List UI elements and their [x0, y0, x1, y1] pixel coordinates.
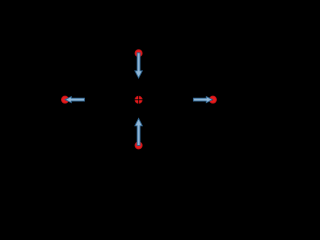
vertical bar outline	[130, 56, 148, 146]
axis arrow right edge (in, black invisible)	[238, 97, 249, 102]
cell line h4	[130, 126, 148, 128]
crosshair vertical	[138, 53, 140, 146]
axis arrow left edge (in, black invisible)	[0, 97, 12, 102]
node right	[209, 96, 216, 103]
force arrow bottom (up)	[135, 118, 142, 145]
node center	[135, 96, 142, 103]
cell line v3	[147, 92, 149, 110]
cell line v2	[129, 92, 131, 110]
cell line h1	[130, 73, 148, 75]
crosshair horizontal	[65, 99, 213, 101]
force arrow top (down)	[135, 53, 142, 78]
cruciform cell grid (black lines, invisible on black bg)	[94, 56, 184, 146]
node top	[135, 50, 142, 57]
horizontal bar outline	[94, 92, 184, 110]
force arrow right (out)	[193, 97, 212, 103]
cell line v4	[165, 92, 167, 110]
force arrow left (out)	[65, 97, 84, 103]
axis arrow top edge (in, black invisible)	[136, 0, 141, 34]
cell line h3	[130, 109, 148, 111]
cell line v1	[111, 92, 113, 110]
cell line h2	[130, 91, 148, 93]
axis arrow bottom edge (in, black invisible)	[136, 152, 141, 219]
node left	[61, 96, 68, 103]
node bottom	[135, 142, 142, 149]
